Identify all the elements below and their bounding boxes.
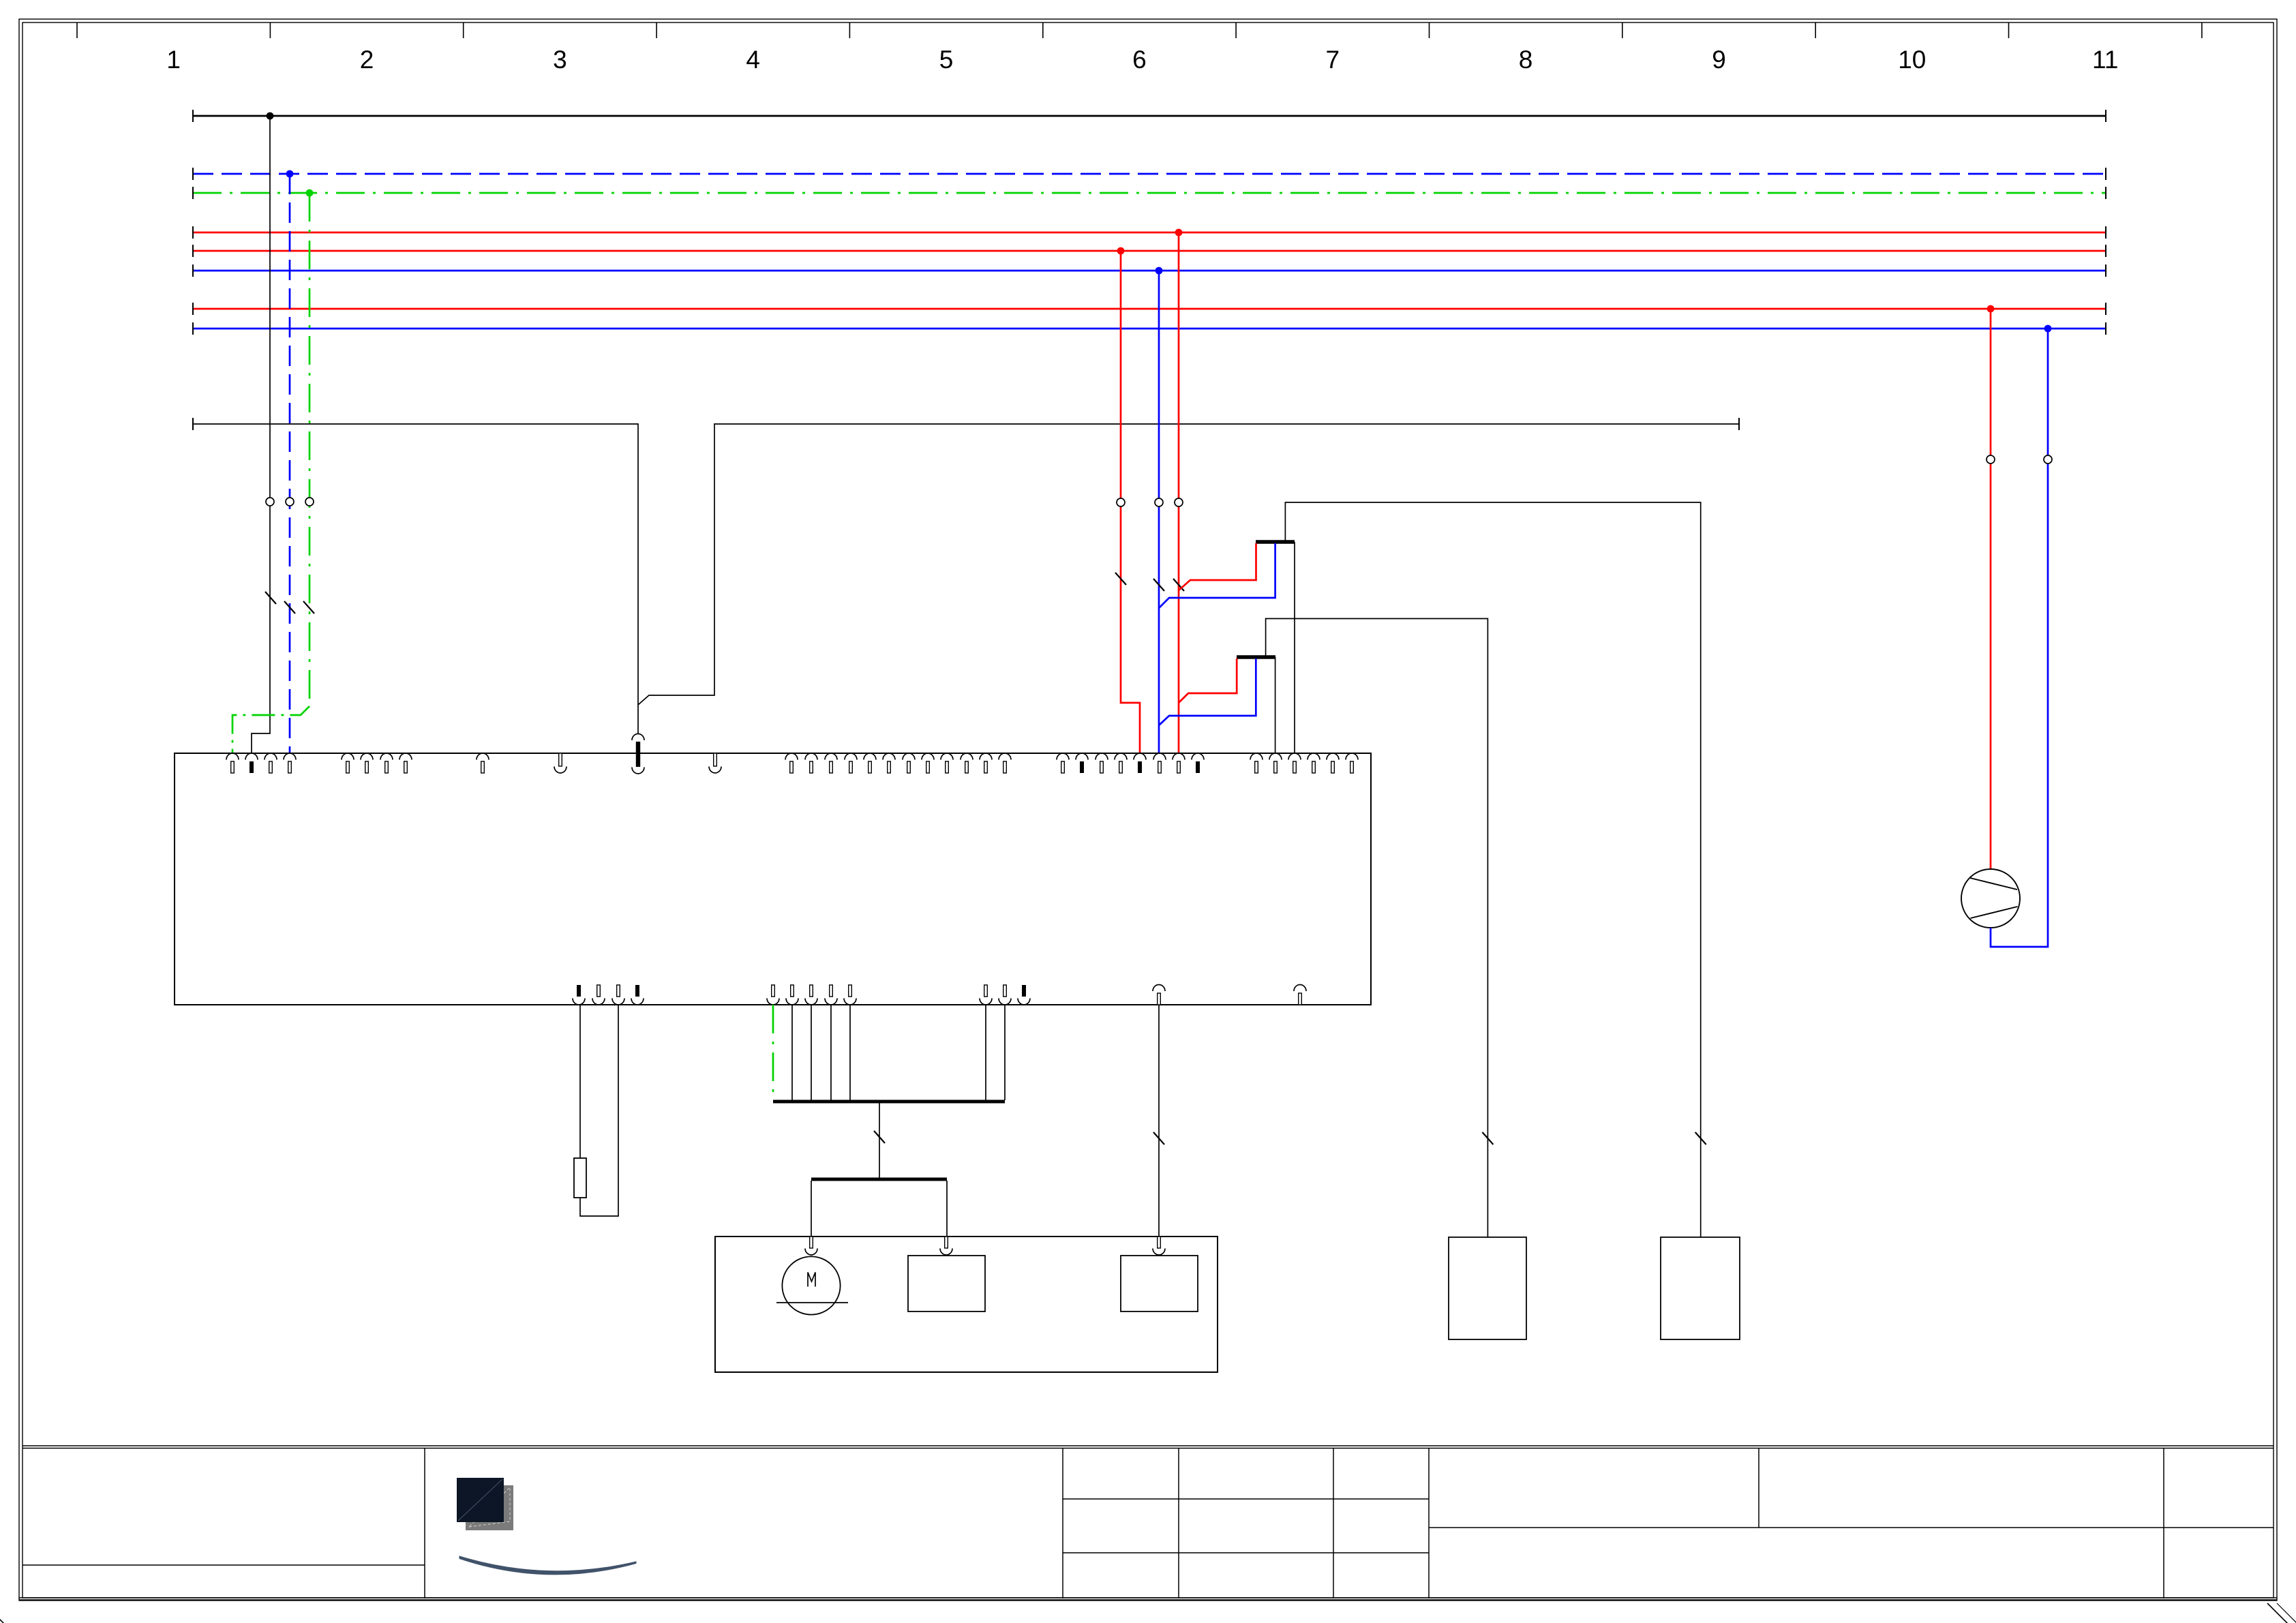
- wire: from bottom pin to resistor R1: [579, 1005, 581, 1158]
- pin bottom socket D2: [1294, 985, 1306, 1005]
- junction dot on bus L2 blue dashed: [286, 170, 294, 178]
- svg-text:1: 1: [166, 46, 181, 74]
- connector ring on black drop: [266, 498, 274, 506]
- pin top 10: [785, 753, 798, 773]
- wire: red drop from R2 bus: [1121, 251, 1140, 753]
- svg-text:9: 9: [1712, 46, 1726, 74]
- pin top 18: [941, 753, 953, 773]
- wire: blue drop from B1 bus: [1158, 271, 1160, 753]
- wire: control line left segment: [193, 418, 638, 734]
- junction dot on bus B2 blue: [2044, 325, 2052, 333]
- pin top 19: [961, 753, 973, 773]
- pin top 30: [1250, 753, 1263, 773]
- wire: bar X4 to motor M1: [811, 1181, 812, 1237]
- bus B2 blue: [193, 322, 2106, 335]
- pin top 23: [1076, 753, 1088, 773]
- pin top 8: [399, 753, 412, 773]
- pin top 3: [265, 753, 277, 773]
- pin top 27: [1153, 753, 1166, 773]
- wire: pin to distribution bar c: [830, 1005, 832, 1100]
- module K2: [1121, 1256, 1198, 1311]
- wire: pin to distribution bar b: [811, 1005, 812, 1100]
- company logo: [457, 1478, 636, 1575]
- pin bottom 2: [592, 985, 605, 1005]
- wire: bar X4 to module K1: [946, 1181, 948, 1237]
- pin on motor M1: [805, 1237, 817, 1255]
- wire: blue from fan back to B2 bus: [1991, 329, 2048, 947]
- pin on module K2: [1153, 1237, 1165, 1255]
- pin bottom 8: [825, 985, 837, 1005]
- pin top socket S1: [554, 753, 567, 773]
- pin top 5: [342, 753, 354, 773]
- pin top 15: [883, 753, 895, 773]
- pin top 13: [845, 753, 857, 773]
- pin top 32: [1288, 753, 1301, 773]
- pin bottom socket D1: [1153, 985, 1165, 1005]
- pin bottom 9: [844, 985, 856, 1005]
- connector bar X1: [1256, 540, 1295, 544]
- bus L1 black: [193, 110, 2106, 122]
- junction dot on bus B1 blue: [1155, 267, 1163, 275]
- connector ring on blue drop: [286, 498, 294, 506]
- motor M1: [776, 1256, 848, 1314]
- wire: from resistor R1 back to controller: [580, 1005, 618, 1216]
- breaker slash on blue drop: [284, 601, 295, 613]
- svg-text:7: 7: [1326, 46, 1340, 74]
- bus B1 blue: [193, 264, 2106, 277]
- pin top 16: [903, 753, 915, 773]
- wire: pin to distribution bar f: [1004, 1005, 1006, 1100]
- resistor R1: [574, 1158, 586, 1198]
- wire: pin to distribution bar a: [791, 1005, 793, 1100]
- pin bottom 4: [631, 985, 644, 1005]
- pin top 33: [1308, 753, 1320, 773]
- connector ring on red fan wire: [1987, 455, 1995, 464]
- pin top 4: [284, 753, 296, 773]
- wire: green PE to distribution bar: [772, 1005, 774, 1100]
- svg-text:5: 5: [939, 46, 954, 74]
- wire: bar X3 to bar X4: [879, 1103, 880, 1178]
- junction dot on bus R1 red: [1175, 229, 1183, 237]
- breaker slash on K2 wire: [1153, 1132, 1164, 1144]
- pin top 11: [805, 753, 817, 773]
- wire: black from bar X2 up and right to box B1: [1266, 619, 1488, 1238]
- pin top 28: [1173, 753, 1185, 773]
- pin top 20: [980, 753, 992, 773]
- pin top 26: [1134, 753, 1146, 773]
- breaker slash on blue drop 2: [1153, 579, 1164, 591]
- junction dot on bus L1 black: [267, 112, 274, 120]
- junction dot on bus R3 red: [1987, 305, 1995, 313]
- junction dot on bus PE green dash-dot: [306, 189, 314, 197]
- wire: pin to distribution bar e: [985, 1005, 986, 1100]
- pin top 21: [999, 753, 1011, 773]
- wire: black drop from L1 to controller: [252, 116, 270, 753]
- bus PE green dash-dot: [193, 187, 2106, 199]
- svg-text:8: 8: [1519, 46, 1533, 74]
- wire: controller to module K2: [1158, 1005, 1160, 1237]
- connector ring on blue fan wire: [2044, 455, 2052, 464]
- pin top 34: [1327, 753, 1339, 773]
- breaker slash on X3-X4 wire: [874, 1131, 885, 1143]
- pin bottom 7: [805, 985, 817, 1005]
- breaker slash on wire to box B1: [1482, 1132, 1493, 1144]
- connector bar X2: [1237, 655, 1275, 659]
- pin top 29: [1192, 753, 1204, 773]
- breaker slash on black drop: [265, 592, 276, 604]
- svg-text:2: 2: [360, 46, 374, 74]
- pin top 7: [380, 753, 393, 773]
- breaker slash on red drop 2: [1173, 579, 1184, 591]
- svg-text:11: 11: [2092, 46, 2118, 74]
- pin on module K1: [940, 1237, 952, 1255]
- pin bottom 6: [786, 985, 798, 1005]
- distribution bar X3: [773, 1100, 1005, 1104]
- connector ring on red drop 1: [1117, 498, 1125, 506]
- module K1: [908, 1256, 985, 1311]
- pin top 24: [1096, 753, 1108, 773]
- wire: green PE drop to controller: [309, 193, 311, 706]
- bus L2 blue dashed: [193, 168, 2106, 180]
- pin top 25: [1115, 753, 1127, 773]
- pin top connector C1: [632, 734, 644, 774]
- fan / pump P1: [1961, 869, 2020, 928]
- wire: black from bar X1 up and right to box B2: [1285, 502, 1700, 1237]
- svg-text:6: 6: [1132, 46, 1147, 74]
- wire: pin to distribution bar d: [849, 1005, 851, 1100]
- pin top socket S2: [709, 753, 721, 773]
- bus R1 red: [193, 226, 2106, 239]
- wire: red drop from R1 bus: [1178, 232, 1180, 753]
- controller unit A1: [175, 753, 1371, 1005]
- sensor box B1: [1449, 1237, 1526, 1339]
- pin bottom 1: [573, 985, 585, 1005]
- wire: red from R3 bus to fan: [1990, 309, 1992, 869]
- pin top 35: [1346, 753, 1358, 773]
- wire: blue dashed drop from L2 to controller: [289, 174, 291, 753]
- wire: black from bar X1 to controller pin: [1294, 542, 1295, 753]
- wire: red tap from bar X2: [1179, 658, 1237, 703]
- connector ring on green drop: [305, 498, 314, 506]
- breaker slash on green drop: [303, 601, 314, 613]
- sensor box B2: [1661, 1237, 1740, 1339]
- breaker slash on wire to box B2: [1695, 1132, 1706, 1144]
- pin bottom 12: [1018, 985, 1030, 1005]
- wire: red tap from bar X1: [1179, 543, 1256, 590]
- wire: control line right segment: [638, 418, 1739, 705]
- wire: black from bar X2 to controller pin: [1275, 657, 1276, 753]
- distribution bar X4: [811, 1178, 947, 1181]
- svg-text:3: 3: [553, 46, 567, 74]
- pin bottom 3: [612, 985, 624, 1005]
- pin top 14: [864, 753, 876, 773]
- svg-text:4: 4: [746, 46, 760, 74]
- breaker slash on red drop 1: [1115, 573, 1126, 585]
- bus R3 red: [193, 303, 2106, 315]
- pin top 17: [922, 753, 934, 773]
- junction dot on bus R2 red: [1117, 247, 1125, 255]
- pin top 31: [1269, 753, 1282, 773]
- bus R2 red: [193, 245, 2106, 257]
- wire: blue tap from bar X2: [1159, 658, 1256, 725]
- svg-text:10: 10: [1898, 46, 1926, 74]
- pin bottom 11: [999, 985, 1011, 1005]
- pin top 6: [361, 753, 373, 773]
- pin bottom 10: [980, 985, 992, 1005]
- pin top 9: [477, 753, 489, 773]
- connector ring on blue drop 2: [1155, 498, 1163, 506]
- pin bottom 5: [767, 985, 779, 1005]
- pin top 1: [226, 753, 239, 773]
- wire: blue tap from bar X1: [1159, 543, 1275, 608]
- pin top 12: [825, 753, 837, 773]
- appliance unit G1: [715, 1237, 1218, 1372]
- pin top 22: [1057, 753, 1069, 773]
- pin top 2: [245, 753, 258, 773]
- connector ring on red drop 2: [1175, 498, 1183, 506]
